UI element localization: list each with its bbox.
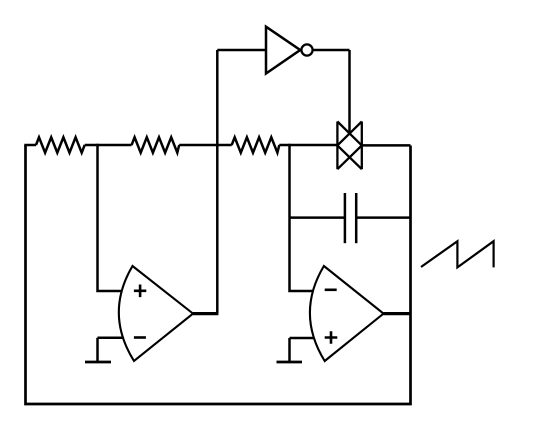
capacitor C1 right plate <box>355 193 358 243</box>
wire R3 to switch input <box>279 144 337 147</box>
wire integrator input drop to U2 inverting input <box>290 144 314 291</box>
wire R2 to R3 <box>179 144 232 147</box>
wire U2 output <box>384 312 411 315</box>
op-amp U1 plus sign <box>134 285 146 298</box>
wire switch output <box>362 144 411 147</box>
sawtooth output waveform symbol <box>421 241 494 267</box>
inverter U3 <box>266 27 300 74</box>
op-amp U2 minus sign <box>325 288 337 291</box>
analog switch S1 right-pointing triangle sides <box>337 122 361 170</box>
resistor R1 <box>36 137 85 152</box>
wire capacitor left lead <box>290 216 345 219</box>
op-amp U1 minus sign <box>134 336 146 339</box>
ground U2: stem <box>288 338 291 362</box>
resistor R2 <box>132 137 180 152</box>
wire U1 inverting input <box>98 337 123 340</box>
wire R1 to R2 with junction node A <box>85 144 132 147</box>
inverter bubble <box>301 44 312 55</box>
capacitor C1 left plate <box>344 193 347 243</box>
op-amp U2 plus sign <box>325 331 338 344</box>
resistor R3 <box>232 137 280 152</box>
wire top row segment left <box>24 144 36 147</box>
wire U2 noninverting input <box>290 337 314 340</box>
wire outer loop: left side, bottom, right side <box>26 145 411 404</box>
wire capacitor right lead <box>356 216 410 219</box>
wire junction drop to U1 noninverting input <box>98 144 123 291</box>
wire U1 output <box>193 312 218 315</box>
ground U2: bar <box>277 361 303 364</box>
wire inverter input <box>217 49 266 52</box>
op-amp U2 body <box>310 266 384 361</box>
ground U1: stem <box>96 338 99 362</box>
ground U1: bar <box>85 361 111 364</box>
analog switch S1 left edge <box>336 122 338 170</box>
wire inverter output <box>313 49 350 52</box>
analog switch S1 left-pointing triangle sides <box>337 122 361 170</box>
op-amp U1 body <box>119 266 193 361</box>
analog switch S1 right edge <box>361 122 363 170</box>
wire switch control drop <box>348 50 351 133</box>
wire feedback vertical from inverter input down to U1 output <box>216 50 219 314</box>
